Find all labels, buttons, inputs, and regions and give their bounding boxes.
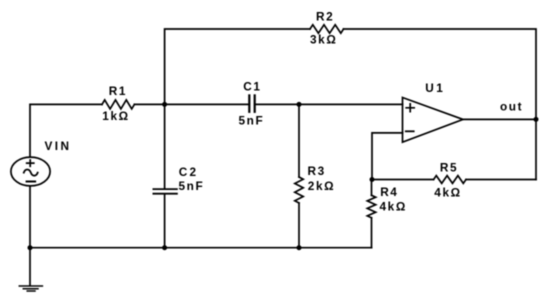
wire ground stem bbox=[29, 248, 31, 286]
ground bbox=[19, 286, 42, 291]
wire bottom rail bbox=[30, 247, 372, 249]
wire R2 to output node bbox=[344, 29, 537, 119]
svg-text:4kΩ: 4kΩ bbox=[434, 185, 461, 199]
resistor R4 bbox=[367, 195, 375, 218]
wire VIN top lead to R1 bbox=[30, 104, 102, 157]
svg-text:out: out bbox=[500, 99, 523, 113]
wire R5 to output node bbox=[466, 179, 536, 181]
wire node A down to C2 bbox=[164, 104, 166, 188]
svg-text:VIN: VIN bbox=[45, 139, 72, 153]
svg-text:C1: C1 bbox=[243, 80, 261, 94]
wire feedback node to R5 bbox=[372, 179, 434, 181]
node out junction bbox=[534, 117, 539, 122]
wire VIN bottom lead bbox=[29, 186, 31, 248]
wire node B down to R3 bbox=[298, 104, 300, 177]
wire C2 to bottom rail bbox=[164, 195, 166, 248]
svg-text:R1: R1 bbox=[109, 84, 127, 98]
wire op-amp output bbox=[463, 118, 536, 120]
voltage source VIN bbox=[11, 157, 50, 186]
resistor R5 bbox=[434, 176, 466, 184]
svg-text:R5: R5 bbox=[440, 160, 458, 174]
wire R1 to C1 bbox=[134, 103, 249, 105]
wire C1 to op-amp noninverting input bbox=[255, 103, 403, 105]
svg-text:R2: R2 bbox=[316, 9, 334, 23]
wire node A to top rail bbox=[165, 29, 310, 104]
op-amp U1 bbox=[403, 98, 464, 143]
svg-text:U1: U1 bbox=[425, 81, 445, 95]
svg-text:R4: R4 bbox=[380, 185, 398, 199]
svg-text:1kΩ: 1kΩ bbox=[102, 109, 129, 123]
svg-text:4kΩ: 4kΩ bbox=[380, 200, 407, 214]
wire R3 to bottom rail bbox=[298, 203, 300, 248]
svg-text:C2: C2 bbox=[179, 165, 198, 179]
resistor R2 bbox=[310, 25, 344, 33]
svg-text:2kΩ: 2kΩ bbox=[308, 179, 335, 193]
capacitor C1 bbox=[249, 95, 254, 111]
svg-text:5nF: 5nF bbox=[179, 179, 205, 193]
svg-text:5nF: 5nF bbox=[239, 113, 265, 127]
wire output node down to R5 bbox=[535, 119, 537, 179]
node feedback junction bbox=[370, 177, 375, 182]
resistor R3 bbox=[295, 177, 303, 203]
node C2-rail junction bbox=[162, 245, 167, 250]
wire inverting input to feedback node bbox=[372, 133, 403, 180]
node A junction bbox=[162, 102, 167, 107]
node B junction bbox=[297, 102, 302, 107]
wire feedback node to R4 bbox=[371, 180, 373, 196]
resistor R1 bbox=[102, 100, 134, 109]
node R3-rail junction bbox=[297, 245, 302, 250]
svg-text:3kΩ: 3kΩ bbox=[310, 32, 337, 46]
node ground-rail junction bbox=[28, 245, 33, 250]
svg-text:R3: R3 bbox=[308, 164, 326, 178]
wire R4 to bottom rail bbox=[371, 218, 373, 248]
capacitor C2 bbox=[153, 189, 177, 194]
